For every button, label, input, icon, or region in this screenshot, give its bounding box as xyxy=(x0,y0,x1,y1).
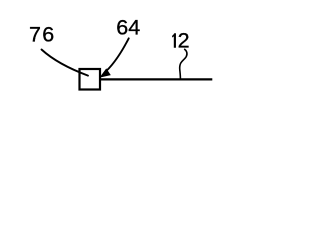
box (square element pointed to by 76 and 64) xyxy=(80,69,101,90)
svg-text:2: 2 xyxy=(178,29,190,53)
arrowhead of leader 64 pointing at junction of line 12 and box xyxy=(100,68,111,77)
leader squiggle from label 12 to horizontal line xyxy=(180,49,187,79)
svg-text:76: 76 xyxy=(29,22,56,46)
leader line from label 76 into box xyxy=(42,50,89,76)
svg-text:64: 64 xyxy=(116,16,140,40)
horizontal line 12 xyxy=(100,78,213,80)
leader line from label 64 xyxy=(107,38,129,70)
label 12 (digit 1 drawn as path, digit 2 as text) xyxy=(172,29,189,53)
